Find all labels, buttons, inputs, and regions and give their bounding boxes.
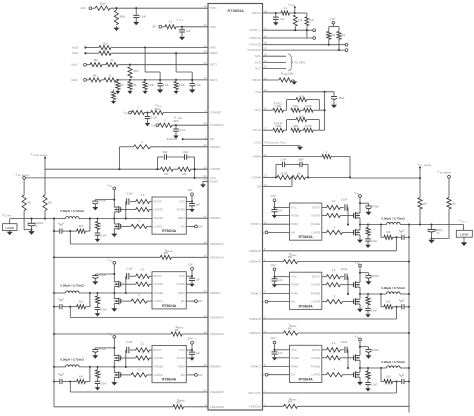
svg-text:45uF: 45uF: [339, 97, 345, 100]
svg-text:560: 560: [288, 327, 293, 330]
svg-text:20: 20: [203, 166, 207, 170]
svg-text:10pF: 10pF: [183, 151, 189, 154]
svg-text:CC_L: CC_L: [462, 221, 468, 223]
svg-text:PWM 1: PWM 1: [251, 222, 261, 226]
svg-text:1uF: 1uF: [196, 204, 201, 207]
svg-text:610: 610: [386, 375, 391, 378]
svg-text:PWROK: PWROK: [249, 36, 261, 40]
svg-text:Vcc3: Vcc3: [71, 63, 78, 67]
svg-text:13: 13: [264, 174, 268, 178]
svg-text:12: 12: [264, 183, 268, 187]
svg-text:LGATE: LGATE: [311, 300, 320, 304]
svg-text:VCC: VCC: [291, 275, 297, 279]
svg-text:VCC: VCC: [291, 206, 297, 210]
svg-text:PWM: PWM: [178, 216, 186, 220]
svg-text:470uF: 470uF: [99, 347, 107, 351]
svg-text:470uF: 470uF: [99, 199, 107, 203]
svg-text:LOAD: LOAD: [6, 226, 14, 230]
svg-text:35: 35: [203, 254, 207, 258]
svg-text:PGND: PGND: [291, 283, 299, 287]
svg-text:VSEN1P: VSEN1P: [249, 249, 261, 253]
svg-text:EN: EN: [181, 224, 185, 228]
svg-text:3.3nF: 3.3nF: [371, 310, 378, 313]
svg-text:BOOT: BOOT: [312, 348, 320, 352]
svg-text:0.36μH / 0.72mΩ: 0.36μH / 0.72mΩ: [381, 360, 405, 364]
svg-text:26: 26: [264, 34, 268, 38]
svg-text:2.2: 2.2: [332, 341, 336, 345]
svg-text:VSENA2N: VSENA2N: [210, 332, 224, 336]
svg-text:PGND: PGND: [177, 208, 185, 212]
svg-text:PGND: PGND: [177, 356, 185, 360]
svg-text:10: 10: [264, 221, 268, 225]
svg-text:3.3nF: 3.3nF: [101, 309, 108, 312]
svg-text:PHASE: PHASE: [154, 365, 164, 369]
svg-text:12V: 12V: [188, 263, 193, 267]
svg-text:11: 11: [264, 153, 267, 157]
svg-text:467k: 467k: [173, 120, 179, 123]
svg-text:VCC: VCC: [179, 200, 185, 204]
svg-text:2.94k: 2.94k: [275, 125, 282, 128]
svg-text:1uF: 1uF: [278, 279, 283, 282]
svg-text:PGND: PGND: [177, 282, 185, 286]
svg-text:14: 14: [203, 178, 207, 182]
svg-text:35.85k: 35.85k: [280, 173, 288, 176]
svg-text:50pF: 50pF: [162, 151, 168, 154]
svg-text:0.1uF: 0.1uF: [163, 84, 170, 87]
svg-text:24: 24: [203, 50, 207, 54]
svg-text:100: 100: [423, 203, 428, 206]
svg-text:22: 22: [203, 143, 207, 147]
svg-text:610: 610: [79, 225, 84, 228]
svg-text:39pF: 39pF: [298, 159, 304, 162]
svg-text:12V: 12V: [198, 224, 203, 228]
svg-text:470uF: 470uF: [372, 348, 380, 352]
svg-text:LGATE: LGATE: [311, 373, 320, 377]
svg-text:510k: 510k: [100, 2, 106, 6]
svg-text:100: 100: [27, 202, 32, 205]
svg-text:12V: 12V: [271, 336, 276, 340]
svg-text:RT8894A: RT8894A: [228, 9, 245, 13]
svg-text:RT9624A: RT9624A: [162, 378, 177, 382]
svg-text:COMPA: COMPA: [210, 167, 222, 171]
svg-text:VSENA3N: VSENA3N: [210, 405, 224, 409]
svg-text:Vcc3: Vcc3: [72, 51, 79, 55]
svg-text:PWM: PWM: [291, 222, 299, 226]
svg-text:Vcc3: Vcc3: [72, 45, 79, 49]
svg-text:UGATE: UGATE: [154, 208, 164, 212]
svg-text:0.1uF: 0.1uF: [126, 341, 133, 344]
svg-text:0.1uF: 0.1uF: [126, 193, 133, 196]
svg-text:PWM: PWM: [178, 291, 186, 295]
svg-text:VSEN1N: VSEN1N: [249, 260, 261, 264]
svg-text:31: 31: [203, 174, 207, 178]
svg-text:5V: 5V: [261, 300, 264, 304]
svg-text:4.7k: 4.7k: [309, 19, 314, 22]
svg-text:2.2: 2.2: [169, 20, 173, 24]
svg-text:15: 15: [264, 76, 268, 80]
svg-text:15.75k: 15.75k: [305, 125, 313, 128]
svg-text:UGATE: UGATE: [154, 356, 164, 360]
svg-text:100: 100: [182, 173, 187, 176]
svg-text:3.3V: 3.3V: [329, 17, 335, 21]
svg-text:PWMA1: PWMA1: [210, 216, 221, 220]
svg-text:44: 44: [203, 5, 207, 9]
svg-text:RT9624A: RT9624A: [299, 235, 314, 239]
svg-text:12V: 12V: [81, 6, 86, 10]
svg-text:BOOT: BOOT: [154, 274, 162, 278]
svg-text:12V: 12V: [188, 336, 193, 340]
svg-text:37: 37: [203, 388, 207, 392]
svg-text:LGATE: LGATE: [154, 299, 163, 303]
svg-text:39: 39: [203, 363, 207, 367]
svg-text:NTCA: NTCA: [253, 128, 262, 132]
svg-text:PWM: PWM: [178, 365, 186, 369]
svg-text:PGOODA: PGOODA: [248, 48, 262, 52]
svg-text:23: 23: [203, 23, 207, 27]
svg-text:470uF: 470uF: [372, 274, 380, 278]
svg-text:RT9624A: RT9624A: [162, 229, 177, 233]
svg-text:BOOT: BOOT: [154, 348, 162, 352]
svg-text:SVC: SVC: [255, 54, 262, 58]
svg-text:RT9624A: RT9624A: [299, 378, 314, 382]
svg-text:5V: 5V: [261, 230, 264, 234]
svg-text:41: 41: [203, 289, 207, 293]
svg-text:LGATE: LGATE: [154, 224, 163, 228]
svg-text:27: 27: [264, 27, 268, 31]
svg-text:VSENA3P: VSENA3P: [210, 390, 224, 394]
svg-text:VSEN2N: VSEN2N: [249, 331, 261, 335]
svg-text:12V: 12V: [198, 373, 203, 377]
svg-text:10.5k: 10.5k: [298, 115, 305, 118]
svg-text:36: 36: [203, 330, 207, 334]
svg-text:2.2: 2.2: [141, 193, 145, 197]
svg-text:LGATE: LGATE: [154, 373, 163, 377]
svg-text:0.1uF: 0.1uF: [341, 268, 348, 271]
svg-text:LOAD: LOAD: [460, 233, 468, 237]
svg-text:UGATE: UGATE: [311, 283, 321, 287]
svg-text:PHASE: PHASE: [154, 291, 164, 295]
svg-text:3.3nF: 3.3nF: [101, 234, 108, 237]
svg-text:AGND: AGND: [210, 179, 220, 183]
svg-text:UGATE: UGATE: [311, 214, 321, 218]
svg-text:160k: 160k: [288, 72, 294, 75]
svg-text:360k: 360k: [119, 15, 125, 19]
svg-text:TONSET: TONSET: [210, 111, 222, 115]
svg-text:10.5k: 10.5k: [298, 95, 305, 98]
svg-text:0.1uF: 0.1uF: [341, 199, 348, 202]
svg-text:610: 610: [79, 301, 84, 304]
svg-text:PWM: PWM: [291, 365, 299, 369]
svg-text:VS4: VS4: [255, 90, 261, 94]
svg-text:PHASE: PHASE: [311, 365, 321, 369]
svg-text:IDD OUT: IDD OUT: [248, 391, 261, 395]
svg-text:12V: 12V: [188, 188, 193, 192]
svg-text:CORE_SENSE: CORE_SENSE: [33, 155, 48, 157]
svg-text:SVT: SVT: [255, 66, 261, 70]
svg-text:100: 100: [48, 202, 53, 205]
svg-text:EN: EN: [291, 230, 295, 234]
svg-text:1uF: 1uF: [196, 352, 201, 355]
svg-text:33: 33: [203, 314, 207, 318]
svg-text:0.1uF: 0.1uF: [126, 267, 133, 270]
svg-text:100k: 100k: [293, 105, 299, 108]
svg-text:0.1uF: 0.1uF: [179, 129, 186, 132]
svg-text:BOOT: BOOT: [154, 200, 162, 204]
svg-text:6.19k: 6.19k: [179, 84, 186, 87]
svg-text:49 (Exposed Pad): 49 (Exposed Pad): [264, 141, 286, 145]
svg-text:4.7k: 4.7k: [298, 19, 303, 22]
svg-text:562: 562: [176, 402, 181, 405]
svg-text:0.1uF: 0.1uF: [140, 14, 147, 18]
svg-text:1uF: 1uF: [278, 352, 283, 355]
svg-text:PWM 2: PWM 2: [251, 291, 261, 295]
svg-text:EN: EN: [291, 300, 295, 304]
svg-text:1uF: 1uF: [196, 278, 201, 281]
svg-text:EN: EN: [181, 299, 185, 303]
svg-text:SFB: SFB: [210, 46, 216, 50]
svg-text:BOOT: BOOT: [312, 275, 320, 279]
svg-text:17: 17: [264, 127, 268, 131]
svg-text:12V: 12V: [271, 194, 276, 198]
svg-text:SET1: SET1: [210, 63, 218, 67]
svg-text:PHASE: PHASE: [311, 222, 321, 226]
svg-text:12V: 12V: [271, 263, 276, 267]
svg-text:43: 43: [203, 215, 207, 219]
svg-text:CKSP_L: CKSP_L: [249, 28, 261, 32]
svg-text:2.2nF: 2.2nF: [280, 159, 287, 162]
svg-text:43: 43: [264, 9, 268, 13]
svg-text:BOOT: BOOT: [312, 206, 320, 210]
svg-text:TONSETA: TONSETA: [210, 123, 225, 127]
svg-text:VSENA2P: VSENA2P: [210, 316, 224, 320]
svg-text:470uF: 470uF: [372, 205, 380, 209]
svg-text:SET2: SET2: [210, 78, 218, 82]
svg-text:Vcc5: Vcc5: [71, 78, 78, 82]
svg-text:EN: EN: [181, 373, 185, 377]
svg-text:UGATE: UGATE: [311, 356, 321, 360]
svg-text:SVD: SVD: [255, 61, 262, 65]
svg-text:2.2: 2.2: [284, 7, 288, 10]
svg-text:0.36μH / 0.72mΩ: 0.36μH / 0.72mΩ: [381, 216, 405, 220]
svg-text:20: 20: [264, 53, 268, 57]
svg-text:610: 610: [386, 301, 391, 304]
svg-text:PGOOD: PGOOD: [250, 43, 262, 47]
svg-text:29: 29: [203, 76, 207, 80]
svg-text:VCC: VCC: [179, 348, 185, 352]
svg-text:PGND: PGND: [291, 356, 299, 360]
svg-text:COMP: COMP: [252, 175, 261, 179]
svg-text:610: 610: [386, 231, 391, 234]
svg-text:RT9624A: RT9624A: [162, 304, 177, 308]
svg-text:560: 560: [288, 256, 293, 259]
svg-text:To CPU: To CPU: [295, 61, 305, 65]
svg-text:3.3nF: 3.3nF: [371, 240, 378, 243]
svg-text:5V: 5V: [153, 25, 157, 29]
svg-text:38: 38: [264, 41, 268, 45]
svg-text:37: 37: [264, 46, 268, 50]
svg-text:0.36μH / 0.72mΩ: 0.36μH / 0.72mΩ: [60, 358, 84, 362]
svg-text:1uF: 1uF: [280, 18, 285, 21]
svg-text:25: 25: [203, 61, 207, 65]
svg-text:VCC: VCC: [291, 348, 297, 352]
svg-text:FB: FB: [257, 185, 261, 189]
svg-text:0.36μH / 0.72mΩ: 0.36μH / 0.72mΩ: [60, 209, 84, 213]
svg-text:470: 470: [120, 84, 125, 87]
svg-text:UGATE: UGATE: [154, 282, 164, 286]
svg-text:SFBA: SFBA: [210, 51, 219, 55]
svg-text:NTC: NTC: [255, 108, 262, 112]
svg-text:22: 22: [264, 65, 268, 69]
svg-text:562: 562: [174, 329, 179, 332]
svg-text:VDDIO: VDDIO: [251, 11, 261, 15]
svg-text:48: 48: [203, 122, 207, 126]
svg-text:PGND: PGND: [291, 214, 299, 218]
svg-text:VSEN: VSEN: [253, 155, 261, 159]
svg-text:3.3nF: 3.3nF: [371, 384, 378, 387]
svg-text:PWMA2: PWMA2: [210, 291, 221, 295]
svg-text:EN: EN: [210, 137, 214, 141]
svg-text:560: 560: [288, 401, 293, 404]
svg-text:TVID: TVID: [210, 6, 218, 10]
svg-text:0.36μH / 0.72mΩ: 0.36μH / 0.72mΩ: [381, 286, 405, 290]
svg-text:21: 21: [203, 44, 207, 48]
svg-text:0.1uF: 0.1uF: [341, 341, 348, 344]
svg-text:EnaVtty: EnaVtty: [167, 137, 177, 141]
svg-text:0.1uF: 0.1uF: [195, 84, 202, 87]
svg-text:2.2: 2.2: [141, 268, 145, 272]
svg-text:1uF: 1uF: [186, 29, 191, 33]
svg-text:0.36: 0.36: [132, 84, 137, 87]
svg-text:VSEN2P: VSEN2P: [249, 317, 261, 321]
svg-text:SS_SENSE: SS_SENSE: [440, 172, 452, 174]
svg-text:21: 21: [264, 59, 268, 63]
svg-text:2.2: 2.2: [141, 341, 145, 345]
svg-text:6.19k: 6.19k: [148, 84, 155, 87]
svg-text:PHASE: PHASE: [311, 291, 321, 295]
svg-text:VBIAS: VBIAS: [252, 78, 261, 82]
svg-text:1uF: 1uF: [278, 210, 283, 213]
svg-text:2.2: 2.2: [332, 199, 336, 203]
svg-text:VSENA1P: VSENA1P: [210, 242, 224, 246]
svg-text:5V: 5V: [261, 373, 264, 377]
svg-text:10.05k: 10.05k: [305, 105, 313, 108]
svg-text:2.2: 2.2: [332, 268, 336, 272]
svg-text:18: 18: [264, 88, 268, 92]
svg-text:VSENA: VSENA: [210, 145, 221, 149]
svg-text:0.36μH / 0.72mΩ: 0.36μH / 0.72mΩ: [60, 284, 84, 288]
svg-text:VCC: VCC: [179, 274, 185, 278]
svg-text:LGATE: LGATE: [311, 230, 320, 234]
svg-text:VSEN3N: VSEN3N: [249, 404, 261, 408]
svg-text:2.94k: 2.94k: [275, 105, 282, 108]
svg-text:PHASE: PHASE: [154, 216, 164, 220]
svg-text:VDC: VDC: [210, 25, 217, 29]
svg-text:CC_SENSE: CC_SENSE: [420, 165, 432, 167]
svg-text:610: 610: [79, 375, 84, 378]
svg-text:127k: 127k: [133, 70, 139, 73]
svg-text:RT9624A: RT9624A: [299, 304, 314, 308]
svg-text:GND: GND: [254, 141, 261, 145]
svg-text:100: 100: [452, 203, 457, 206]
svg-text:470uF: 470uF: [99, 273, 107, 277]
svg-text:16: 16: [264, 107, 268, 111]
svg-text:0.1uF: 0.1uF: [151, 117, 158, 120]
svg-text:VSENA1N: VSENA1N: [210, 255, 224, 259]
svg-text:100k: 100k: [293, 125, 299, 128]
svg-text:PWMA3: PWMA3: [210, 365, 221, 369]
svg-text:PWM 3: PWM 3: [251, 365, 261, 369]
svg-text:PWM: PWM: [291, 291, 299, 295]
svg-text:12V: 12V: [198, 299, 203, 303]
svg-text:453k: 453k: [154, 108, 160, 111]
svg-text:34: 34: [203, 240, 207, 244]
svg-text:562: 562: [164, 252, 169, 255]
svg-text:CORE: CORE: [5, 216, 12, 218]
svg-text:EN: EN: [291, 373, 295, 377]
svg-text:3.3nF: 3.3nF: [101, 383, 108, 386]
